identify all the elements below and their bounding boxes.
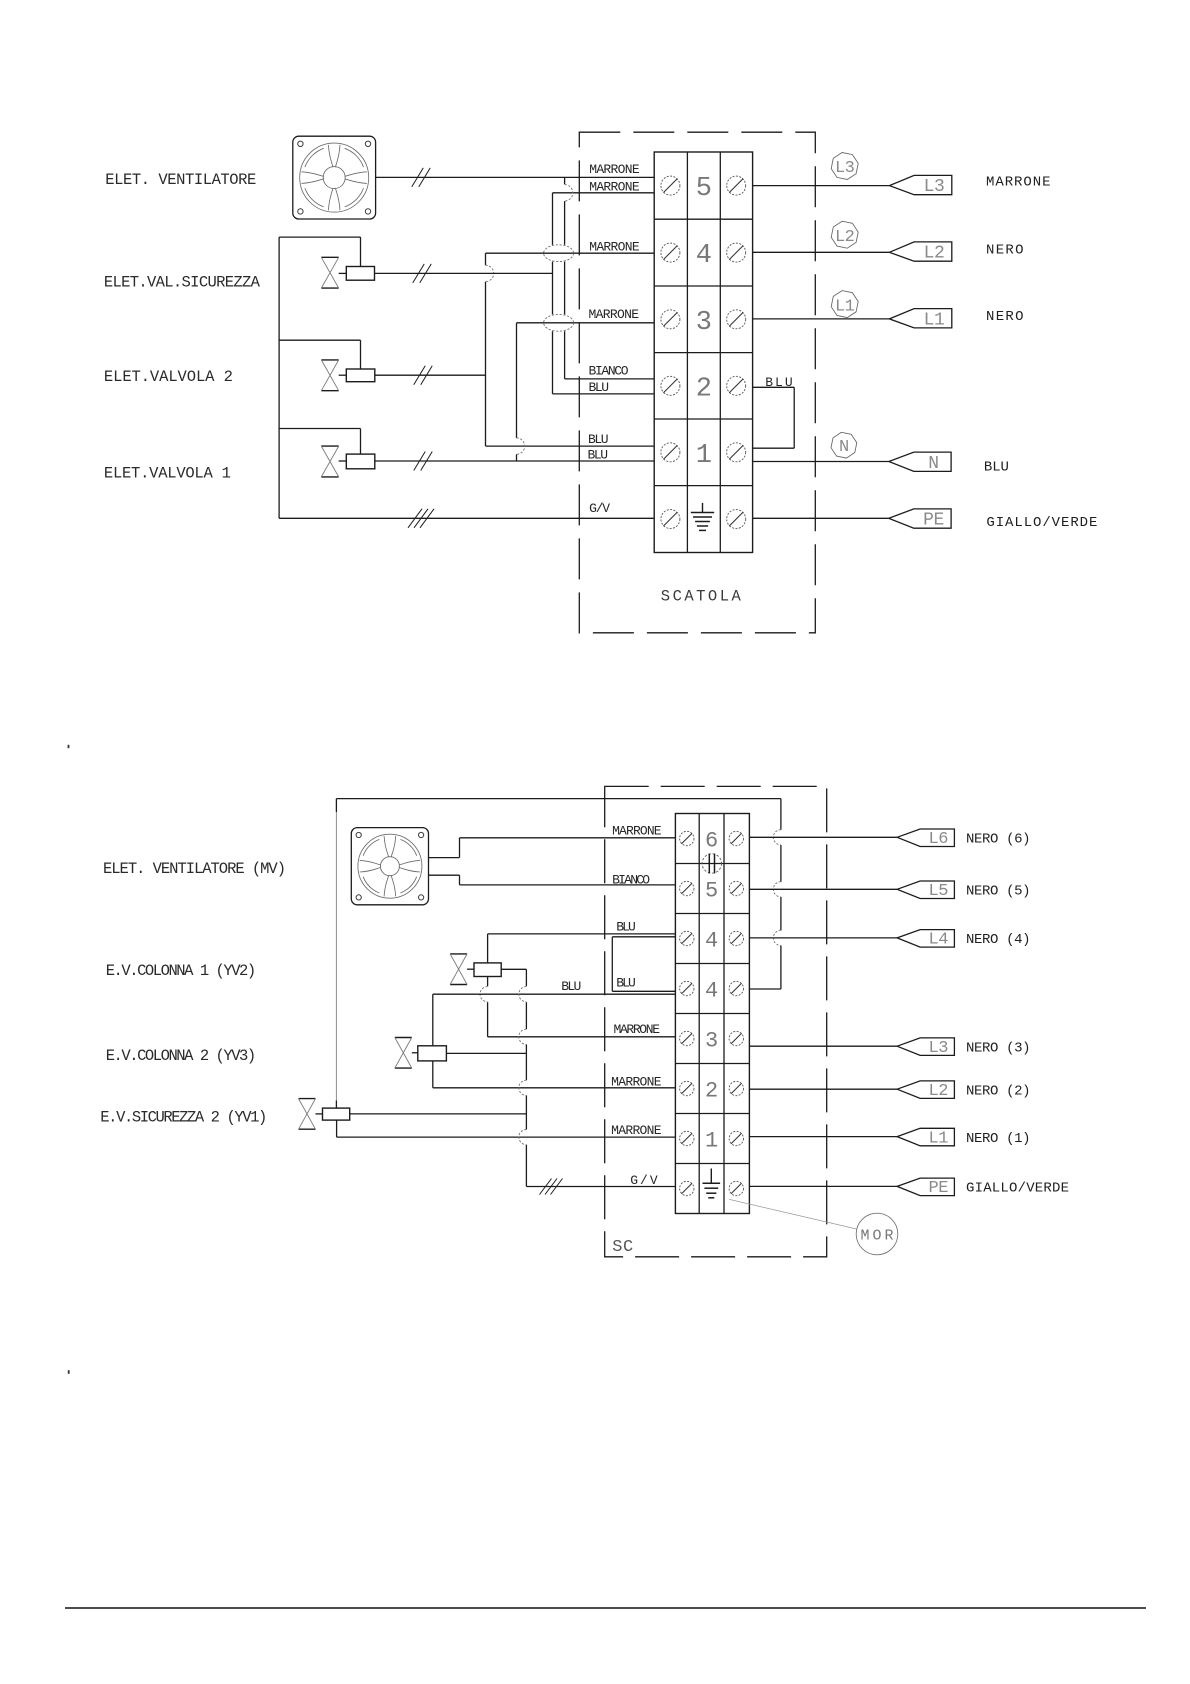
svg-text:GIALLO/VERDE: GIALLO/VERDE [986,515,1097,531]
terminal TB1 row 1 screw right [727,443,746,462]
svg-text:MARRONE: MARRONE [986,174,1051,190]
terminal TB2 row 3 (index 4) screw left [680,1031,694,1045]
stray dot upper [68,745,70,748]
terminal TB2 row 4 (index 3) screw right [729,981,743,995]
flag PE [897,1178,954,1196]
svg-text:L3: L3 [929,1039,949,1058]
fan motor M2 (ELET. VENTILATORE MV) [351,828,428,905]
wire hop earth riser over terminal 4b wire [519,987,527,1002]
wire TB1 terminal 5 lower (MARRONE) [553,192,655,194]
terminal TB2 row 5 (index 1) screw left [680,881,694,895]
flag L1 [889,309,951,328]
cable marker // on valve Y3 wire [413,264,425,283]
riser wire D (fan junction to BIANCO) [564,177,566,184]
wire TB2 to flag L6 [749,836,897,838]
wire TB2 to flag L3 [749,1045,897,1047]
svg-text:L2: L2 [924,244,945,264]
wire hop riser B over BLU wire [517,438,525,454]
terminal TB1 row 3 screw right [727,310,746,329]
wire valve YV3 earth stub to G/V riser [446,1052,526,1054]
riser wire C (terminal 5 lower to terminal 2 lower) [552,193,554,245]
wire hop riser D over terminal5 lower wire [565,185,573,201]
wire TB1 terminal 4 to flag L2 [753,251,890,253]
wire valve Y3 to riser C [375,272,553,274]
wire TB1 terminal 2 upper (BIANCO) [565,378,655,380]
svg-text:N: N [928,454,938,474]
svg-text:NERO (1): NERO (1) [966,1131,1031,1147]
svg-text:G/V: G/V [630,1173,658,1188]
flag L2 [889,242,951,261]
valve Y3 coil [346,267,374,281]
wire hop ellipse risers C,D over terminal 3 wire [544,314,574,331]
earth riser wire (valves to TB2 PE) [525,1002,527,1029]
terminal TB2 row 4 (index 2) screw right [729,931,743,945]
wire valve Y2 to riser A [375,374,486,376]
wire TB1 terminal 1 to flag N [753,461,889,463]
svg-text:L5: L5 [929,882,949,901]
wire hop YV2-bottom riser over terminal 4b wire [480,987,488,1002]
node L2 hexagon [831,221,858,248]
svg-text:1: 1 [696,441,712,471]
node N hexagon [831,432,857,458]
valve Y1 body (ELET.VALVOLA 1) [321,445,338,447]
svg-text:MARRONE: MARRONE [589,180,640,195]
svg-text:NERO: NERO [986,309,1024,325]
enclosure dashed box SC [605,786,827,1256]
terminal TB2 row 1 (index 6) screw left [680,1131,694,1145]
svg-text:ELET.VALVOLA 2: ELET.VALVOLA 2 [104,368,233,386]
svg-text:L4: L4 [929,931,949,950]
terminal TB2 row 4 (index 3) screw left [680,981,694,995]
node L1 hexagon [831,291,858,318]
svg-text:1: 1 [705,1129,718,1154]
wire hop earth riser over terminal 1 wire [519,1130,527,1145]
terminal TB2 row 3 (index 4) screw right [729,1031,743,1045]
terminal TB2 row 4 (index 2) screw left [680,931,694,945]
svg-text:6: 6 [705,829,718,854]
svg-text:5: 5 [696,174,712,204]
footer horizontal rule [65,1607,1146,1609]
flag N [889,452,951,471]
svg-text:BLU: BLU [588,432,609,447]
flag L2 [897,1081,954,1099]
flag L4 [897,930,954,948]
svg-text:L2: L2 [835,228,854,247]
terminal TB2 row 6 (index 0) screw right [729,831,743,845]
svg-text:BIANCO: BIANCO [612,873,650,888]
valve YV1 body (E.V.SICUREZZA 2) [299,1098,316,1100]
wire hop ellipse risers C,D over terminal 4 wire [544,245,574,262]
svg-text:BLU: BLU [984,459,1009,475]
svg-text:L3: L3 [835,159,855,178]
wire TB1 terminal 3 to flag L1 [753,318,890,320]
wire hop riser A over valve Y3 wire [486,265,494,281]
svg-text:NERO (5): NERO (5) [966,884,1031,900]
svg-text:BLU: BLU [616,919,636,934]
terminal TB2 row 2 (index 5) screw left [680,1081,694,1095]
terminal TB2 row 1 (index 6) screw right [729,1131,743,1145]
svg-text:BIANCO: BIANCO [589,363,629,378]
valve Y1 top wire (ELET.VALVOLA 1) [279,428,360,430]
wire TB1 terminal 3 (MARRONE) [517,322,655,324]
svg-text:GIALLO/VERDE: GIALLO/VERDE [966,1181,1069,1197]
svg-text:2: 2 [696,374,712,404]
cable marker /// on G/V wire [540,1179,552,1195]
svg-text:ELET. VENTILATORE (MV): ELET. VENTILATORE (MV) [103,860,286,878]
svg-text:3: 3 [696,308,712,338]
wire hop loop over terminal 5 wire [773,882,781,897]
svg-text:MARRONE: MARRONE [589,162,640,177]
svg-text:MARRONE: MARRONE [612,823,662,838]
bridge link symbol between terminals 6 and 5 [702,854,721,873]
flag L5 [897,881,954,899]
svg-text:4: 4 [696,241,712,271]
valve YV2 coil [474,963,501,977]
wire loop top horizontal (terminal 4b right to valve YV1) [336,798,781,800]
terminal TB2 row PE (index 7) screw right [729,1181,743,1195]
svg-text:N: N [839,438,849,457]
svg-text:MARRONE: MARRONE [589,239,640,254]
wire valve YV2 earth stub to G/V riser [501,968,526,970]
svg-text:4: 4 [705,929,718,954]
wire left bus down to valve YV1 top [335,799,337,812]
svg-text:MARRONE: MARRONE [614,1022,661,1037]
node L3 hexagon [831,153,858,180]
svg-text:L2: L2 [929,1082,948,1101]
jumper TB2 terminal 4a to 4b left side [612,936,675,938]
svg-text:PE: PE [923,511,944,531]
svg-text:BLU: BLU [765,375,793,390]
svg-text:ELET.VALVOLA 1: ELET.VALVOLA 1 [104,465,231,483]
wire fan M2 upper to TB2 terminal 6 (MARRONE) [429,857,460,859]
wire TB2 to flag PE [749,1185,897,1187]
wire TB1 terminal 2 lower (BLU) [553,393,655,395]
valve Y2 coil [346,369,375,382]
svg-text:MARRONE: MARRONE [611,1075,662,1090]
svg-text:E.V.SICUREZZA 2 (YV1): E.V.SICUREZZA 2 (YV1) [100,1109,267,1127]
wire loop right vertical (hops rows 6,5,4a) [780,799,782,830]
ground symbol in TB1 [702,503,704,513]
svg-text:L6: L6 [929,830,949,849]
wire TB1 terminal 1 upper (BLU) [486,445,655,447]
cable marker /// on G/V wire [408,509,422,528]
terminal TB1 row 5 screw right [727,176,746,195]
valve YV3 coil [418,1046,447,1061]
terminal TB1 row PE screw right [727,510,746,529]
wire TB1 terminal 5 to flag L3 [753,185,890,187]
svg-text:MARRONE: MARRONE [589,307,640,322]
wire TB1 PE to flag PE [753,517,889,519]
svg-text:G/V: G/V [589,501,610,516]
valve Y3 body (ELET.VAL.SICUREZZA) [321,256,338,258]
flag PE [889,509,951,528]
terminal TB1 row 3 screw left [661,310,680,329]
wire TB2 to flag L4 [749,937,897,939]
svg-text:3: 3 [705,1029,718,1054]
wire TB2 to flag L2 [749,1088,897,1090]
svg-text:MARRONE: MARRONE [611,1123,662,1138]
svg-text:ELET. VENTILATORE: ELET. VENTILATORE [105,171,256,189]
svg-text:L1: L1 [835,297,855,316]
wire valve YV2 bottom to TB2 terminal 3 (MARRONE) [487,977,489,987]
svg-text:MOR: MOR [861,1228,894,1245]
svg-text:BLU: BLU [588,447,609,462]
svg-text:ELET.VAL.SICUREZZA: ELET.VAL.SICUREZZA [104,274,261,292]
wire valve YV3 bottom to TB2 terminal 2 (MARRONE) [432,1061,434,1088]
terminal TB2 row 2 (index 5) screw right [729,1081,743,1095]
wire valve YV1 bottom to TB2 terminal 1 (MARRONE) [336,1120,338,1137]
wire hop loop over terminal 4a wire [773,930,781,945]
terminal block TB2 outline [675,814,749,1214]
cable marker // on fan wire [412,168,424,187]
terminal TB1 row 5 screw left [661,176,680,195]
terminal strip reference MOR circle [856,1213,898,1255]
wire hop loop over terminal 6 wire [773,830,781,845]
valve Y2 body (ELET.VALVOLA 2) [321,359,338,361]
svg-text:4: 4 [705,979,718,1004]
terminal TB1 row 4 screw left [661,243,680,262]
svg-text:BLU: BLU [589,380,610,395]
svg-text:NERO: NERO [986,243,1024,259]
terminal TB1 row 1 screw left [661,443,680,462]
leader line TB2 to MOR [729,1199,856,1229]
svg-text:BLU: BLU [561,979,581,994]
svg-text:PE: PE [929,1179,949,1198]
wire TB2 to flag L1 [749,1136,897,1138]
wire hop earth riser over terminal 2 wire [519,1080,527,1095]
stray dot lower [68,1370,70,1374]
svg-text:L3: L3 [924,177,945,197]
cable marker // on valve Y1 wire [414,452,426,471]
svg-text:L1: L1 [929,1129,949,1148]
terminal TB1 row 2 screw left [661,376,680,395]
enclosure dashed box SCATOLA [579,132,815,633]
wire TB1 terminal 4 (MARRONE) [486,252,655,254]
svg-text:NERO (3): NERO (3) [966,1040,1031,1056]
terminal TB1 row 4 screw right [727,243,746,262]
flag L3 [889,175,951,194]
ground symbol in TB2 [710,1169,712,1184]
wire fan M2 lower to TB2 terminal 5 (BIANCO) [429,874,460,876]
riser wire A (terminal 4 to terminal 1 upper) [485,253,487,265]
svg-text:E.V.COLONNA 1 (YV2): E.V.COLONNA 1 (YV2) [106,962,257,980]
wire valve YV3 top to TB2 terminal 4b (BLU) [433,993,676,995]
wire hop earth riser over terminal 3 wire [519,1029,527,1044]
svg-text:NERO (6): NERO (6) [966,832,1031,848]
valve YV2 body (E.V.COLONNA 1) [450,953,467,955]
flag L1 [897,1128,954,1146]
fan motor M1 (ELET. VENTILATORE) [293,136,376,219]
flag L3 [897,1038,954,1056]
terminal TB2 row 5 (index 1) screw right [729,881,743,895]
valve Y1 coil [346,454,375,469]
wire valve YV2 top to TB2 terminal 4a (BLU) [488,933,676,935]
terminal TB1 row PE screw left [661,510,680,529]
riser wire B (terminal 3 to terminal 1 lower) [516,323,518,438]
svg-text:L1: L1 [924,310,945,330]
wire valve Y1 to TB1 terminal 1 (BLU) [375,460,654,462]
svg-text:5: 5 [705,879,718,904]
wire fan M1 to TB1 terminal 5 (MARRONE) [376,176,655,178]
terminal block TB1 outline [654,152,752,553]
terminal TB2 row 6 (index 0) screw left [680,831,694,845]
svg-text:E.V.COLONNA 2 (YV3): E.V.COLONNA 2 (YV3) [106,1047,257,1065]
terminal TB1 row 2 screw right [727,376,746,395]
valve Y2 top wire (ELET.VALVOLA 2) [279,339,360,341]
jumper wire TB1 terminal 2 to terminal 1 right (BLU) [753,386,795,388]
valve Y3 top wire (ELET.VAL.SICUREZZA) [279,236,360,238]
svg-text:BLU: BLU [616,976,636,991]
flag L6 [897,829,954,847]
wire ground bus to TB1 PE (G/V) [279,517,654,519]
valve YV1 coil [323,1108,350,1120]
valve YV3 body (E.V.COLONNA 2) [395,1037,412,1039]
terminal TB2 row PE (index 7) screw left [680,1181,694,1195]
svg-text:NERO (4): NERO (4) [966,932,1031,948]
cable marker // on valve Y2 wire [414,366,426,385]
ground bus left vertical [278,237,280,518]
wire valve YV1 earth stub to G/V riser [350,1113,527,1115]
svg-text:NERO (2): NERO (2) [966,1083,1031,1099]
wire TB2 to flag L5 [749,888,897,890]
svg-text:2: 2 [705,1079,718,1104]
svg-text:SC: SC [612,1238,633,1257]
